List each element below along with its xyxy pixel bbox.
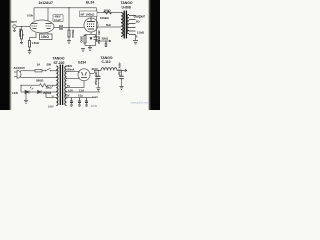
svg-text:0.1µF: 0.1µF — [54, 18, 61, 22]
svg-text:2.5kΩ: 2.5kΩ — [137, 30, 144, 34]
svg-text:EL34: EL34 — [86, 0, 94, 4]
svg-text:Output: Output — [134, 14, 146, 18]
svg-text:NF 100kΩ: NF 100kΩ — [81, 12, 96, 16]
svg-text:25V 1000µF: 25V 1000µF — [97, 31, 100, 45]
svg-text:TANGO: TANGO — [101, 56, 113, 60]
svg-text:130mA: 130mA — [67, 68, 75, 71]
svg-text:15kΩ: 15kΩ — [46, 86, 52, 89]
svg-text:GZ34: GZ34 — [78, 61, 86, 65]
svg-text:5V: 5V — [67, 85, 70, 88]
svg-text:0.1µ: 0.1µ — [78, 95, 83, 98]
svg-text:1.5kΩ: 1.5kΩ — [32, 41, 40, 45]
svg-text:6.3V: 6.3V — [68, 89, 73, 92]
svg-text:390Ω: 390Ω — [80, 36, 84, 43]
svg-text:22kΩ: 22kΩ — [102, 37, 109, 41]
svg-text:U-808: U-808 — [122, 5, 131, 9]
svg-text:100kΩ: 100kΩ — [100, 16, 109, 20]
svg-text:100V: 100V — [48, 106, 54, 109]
svg-text:560kΩ: 560kΩ — [71, 30, 75, 39]
svg-text:6.3V: 6.3V — [65, 95, 70, 98]
svg-text:12.6V: 12.6V — [92, 97, 98, 99]
svg-text:10kΩ: 10kΩ — [41, 35, 49, 39]
svg-text:310V: 310V — [92, 67, 98, 71]
svg-text:TANGO: TANGO — [53, 56, 65, 60]
svg-text:SW: SW — [47, 63, 52, 67]
svg-text:8Ω: 8Ω — [136, 20, 140, 24]
svg-text:400V 100µF: 400V 100µF — [117, 63, 120, 77]
svg-text:500kΩ: 500kΩ — [18, 29, 22, 38]
svg-text:TANGO: TANGO — [121, 1, 133, 5]
svg-text:AC100V: AC100V — [14, 66, 25, 70]
svg-text:100k: 100k — [27, 14, 33, 18]
svg-text:C-110: C-110 — [102, 60, 111, 64]
svg-text:ST-220: ST-220 — [54, 61, 65, 65]
svg-text:100Ω: 100Ω — [104, 9, 112, 13]
svg-text:260Ω: 260Ω — [36, 79, 44, 83]
svg-text:1S1588: 1S1588 — [43, 92, 52, 95]
svg-text:→12.6V: →12.6V — [89, 105, 98, 108]
svg-text:2.5A: 2.5A — [79, 89, 84, 92]
svg-text:LED: LED — [12, 91, 18, 95]
svg-text:2x12AU7: 2x12AU7 — [39, 1, 53, 5]
svg-text:400V 100µF: 400V 100µF — [94, 72, 97, 86]
svg-text:5kΩ: 5kΩ — [106, 24, 111, 27]
svg-text:www.op316.com: www.op316.com — [131, 102, 149, 105]
